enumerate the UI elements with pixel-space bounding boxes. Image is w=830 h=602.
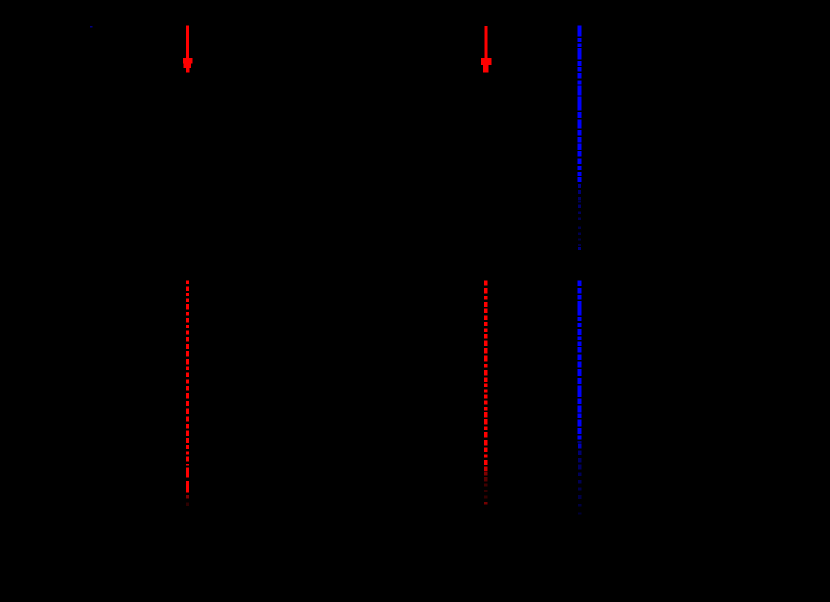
red arrow annotation 2 (top panel, middle) [481, 26, 491, 73]
red dotted vertical line 2, bottom panel [484, 281, 488, 505]
faint blue square marker (legend), top-left [90, 26, 92, 28]
blue dotted vertical line, bottom panel [578, 281, 582, 515]
red arrow annotation 1 (top panel, left) [183, 26, 193, 73]
red dotted vertical line 1, bottom panel [186, 281, 189, 507]
blue dotted vertical line, top panel [578, 26, 582, 250]
